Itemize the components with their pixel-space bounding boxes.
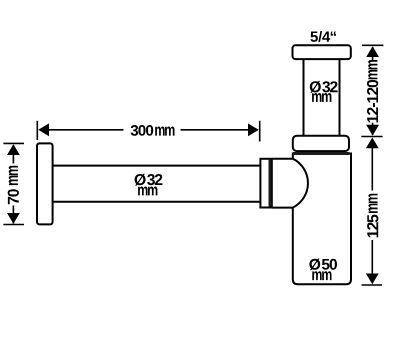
dimension 70 mm ticks and line — [3, 143, 24, 224]
label dim12120_mm — [368, 60, 377, 79]
label dim125_mm — [368, 194, 377, 213]
horizontal pipe — [53, 166, 261, 202]
label dim12120 — [367, 80, 378, 123]
union nut (top of trap) — [293, 136, 349, 151]
dimension 70 mm down arrow — [7, 213, 20, 224]
nut seam band — [268, 160, 271, 207]
label dim300_mm — [155, 127, 174, 136]
dimension 125 mm down arrow — [366, 274, 379, 285]
label body_mm — [312, 271, 331, 280]
dimension 125 mm up arrow — [366, 138, 379, 149]
label vpipe_mm — [312, 93, 331, 102]
dimension 12-120 mm down arrow — [366, 125, 379, 136]
label vpipe_o32 — [310, 81, 338, 93]
top flange (5/4 inch cap) — [293, 45, 351, 59]
dimension 12-120 mm ticks and line — [361, 45, 383, 136]
wall flange — [37, 143, 53, 224]
compression nut (horizontal pipe) — [260, 159, 271, 208]
label dim300 — [131, 125, 154, 136]
label body_o50 — [309, 259, 337, 271]
vertical inlet pipe — [304, 59, 340, 136]
dimension 70 mm up arrow — [7, 144, 20, 155]
label hpipe_o32 — [135, 174, 163, 186]
elbow into trap body — [272, 159, 308, 208]
dimension 125 mm ticks and line — [362, 148, 382, 286]
label hpipe_mm — [138, 187, 157, 196]
label label_5_4 — [311, 31, 336, 42]
dimension 12-120 mm up arrow — [366, 46, 379, 57]
label dim70_mm — [9, 166, 18, 185]
label dim125 — [367, 215, 378, 238]
seam band below nut — [293, 152, 350, 155]
dimension 300 mm right arrow — [248, 123, 259, 136]
dimension 300 mm left arrow — [38, 123, 49, 136]
dimension 300 mm ticks and line — [37, 121, 259, 142]
label dim70 — [8, 189, 19, 204]
trap body — [293, 154, 351, 285]
